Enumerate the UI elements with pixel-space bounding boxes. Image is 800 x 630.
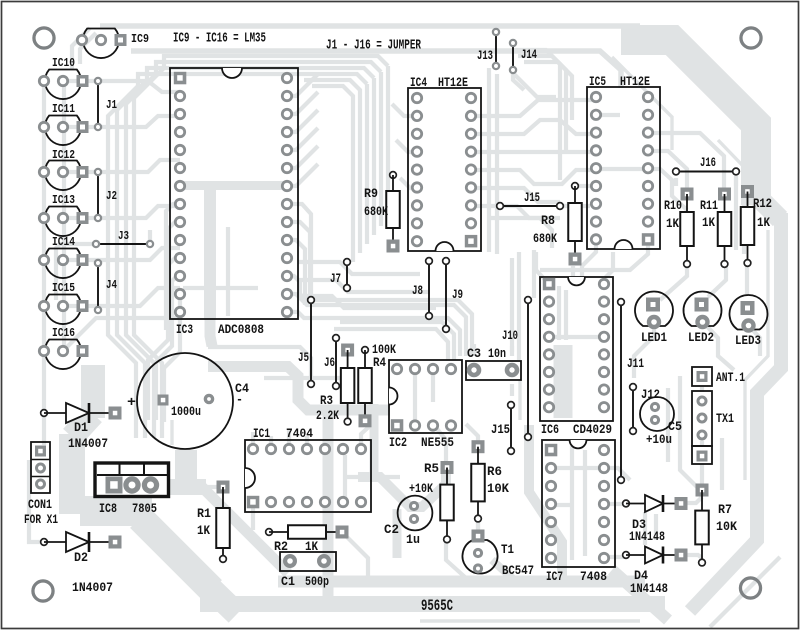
svg-text:1N4007: 1N4007	[68, 436, 108, 451]
svg-text:J3: J3	[118, 229, 129, 243]
label 7404 (IC1)	[286, 426, 313, 441]
wire	[700, 387, 704, 392]
svg-text:IC14: IC14	[52, 235, 75, 249]
wire	[251, 502, 255, 530]
wire	[63, 318, 180, 351]
copper pour band	[323, 408, 334, 596]
label 680K (R9)	[364, 204, 388, 219]
svg-text:IC11: IC11	[52, 102, 75, 116]
label J16	[700, 155, 716, 170]
jumper J2	[95, 169, 101, 221]
wire	[287, 312, 460, 356]
copper pour band	[621, 40, 756, 205]
svg-text:J15: J15	[491, 422, 510, 437]
svg-text:J1: J1	[106, 98, 117, 112]
label C5	[668, 419, 682, 434]
wire	[564, 290, 568, 340]
svg-text:1u: 1u	[406, 532, 420, 547]
label IC1	[253, 426, 270, 441]
label + (C4 polarity)	[127, 395, 136, 411]
capacitor C2 1u electrolytic	[398, 496, 433, 531]
svg-text:IC3: IC3	[176, 322, 193, 337]
label IC7	[546, 569, 563, 584]
label R4	[373, 355, 386, 370]
svg-text:IC12: IC12	[52, 148, 75, 162]
wire	[570, 446, 574, 560]
label R7	[718, 502, 732, 517]
copper pour band	[183, 181, 285, 190]
antenna terminal ANT.1	[692, 367, 712, 386]
wire	[287, 128, 318, 150]
resistor R8 680K	[568, 183, 582, 266]
label 1K (R12)	[757, 215, 770, 230]
capacitor C1 500p	[280, 552, 336, 571]
wire	[674, 178, 678, 186]
label 1000u (C4)	[171, 404, 201, 419]
transistor T1 BC547 (TO-92)	[463, 530, 498, 574]
label IC6	[541, 422, 559, 437]
label J5	[298, 350, 309, 365]
wire	[287, 164, 318, 186]
label CD4029	[573, 422, 612, 437]
jumper J15 bottom	[508, 402, 515, 455]
svg-text:IC16: IC16	[52, 326, 75, 340]
wire	[614, 239, 648, 270]
diode D3 1N4148	[623, 495, 688, 512]
temperature sensor IC12 LM35 (TO-92)	[39, 161, 88, 191]
label 1K (R11)	[702, 215, 715, 230]
svg-text:ANT.1: ANT.1	[716, 370, 745, 385]
svg-text:1K: 1K	[702, 215, 715, 230]
svg-text:BC547: BC547	[502, 563, 534, 578]
wire	[471, 100, 596, 116]
IC U-IC6 CD4029 body+pads	[540, 277, 613, 421]
wire	[100, 23, 640, 29]
resistor R3 2.2K	[341, 344, 355, 425]
capacitor C3 10n	[466, 361, 521, 380]
label C1	[281, 574, 295, 589]
wire	[343, 455, 347, 500]
wire	[126, 62, 381, 438]
wire	[80, 33, 96, 64]
wire	[648, 169, 687, 210]
label D4	[634, 568, 648, 583]
label J7	[330, 271, 341, 286]
label R11	[700, 198, 718, 213]
copper pour band	[202, 487, 288, 573]
svg-text:IC5: IC5	[589, 74, 606, 89]
svg-text:IC2: IC2	[389, 435, 407, 450]
svg-text:TX1: TX1	[716, 411, 734, 426]
wire	[718, 140, 744, 186]
wire	[471, 120, 596, 134]
label J12	[641, 387, 660, 402]
label IC15	[52, 281, 75, 295]
svg-text:IC1: IC1	[253, 426, 270, 441]
diode D1 1N4007	[41, 403, 122, 423]
label BC547 (T1)	[502, 563, 534, 578]
svg-text:R3: R3	[320, 393, 333, 408]
wire	[494, 24, 498, 32]
wire	[264, 378, 352, 404]
wire	[298, 280, 430, 292]
wire	[251, 432, 255, 449]
wire	[476, 522, 480, 531]
wire	[471, 188, 560, 202]
wire	[345, 475, 400, 479]
svg-text:680K: 680K	[364, 204, 388, 219]
wire	[63, 248, 180, 260]
wire	[560, 204, 590, 208]
label R2	[274, 539, 288, 554]
wire	[183, 286, 258, 290]
wire	[287, 222, 310, 300]
wire	[287, 92, 318, 114]
wire	[708, 264, 726, 297]
copper pour band	[175, 450, 197, 480]
mounting hole bottom-right	[740, 578, 760, 598]
label 1K (R1)	[197, 523, 210, 538]
svg-text:IC15: IC15	[52, 281, 75, 295]
svg-text:1K: 1K	[666, 216, 679, 231]
label J8	[412, 283, 423, 298]
wire	[700, 441, 704, 447]
wire	[536, 252, 549, 284]
capacitor C4 1000u electrolytic	[137, 353, 233, 449]
wire	[518, 56, 566, 150]
jumper J10	[525, 297, 532, 441]
label D3	[632, 517, 646, 532]
label NE555 (IC2)	[421, 435, 454, 450]
label J9	[452, 287, 463, 302]
wire	[108, 74, 367, 438]
jumper J15 top	[497, 203, 564, 210]
label ANT.1	[716, 370, 745, 385]
wire	[42, 81, 46, 413]
wire	[148, 258, 180, 420]
wire	[287, 146, 318, 168]
svg-text:R6: R6	[487, 464, 502, 479]
wire	[63, 288, 180, 306]
label LED1	[641, 330, 667, 345]
copper pour band	[393, 509, 402, 558]
wire	[334, 329, 448, 360]
wire	[686, 497, 702, 503]
wire	[583, 450, 587, 556]
svg-text:7408: 7408	[580, 569, 607, 584]
label D1	[74, 420, 88, 435]
label J6	[324, 355, 335, 370]
svg-text:10K: 10K	[716, 519, 737, 534]
mounting hole top-right	[741, 28, 761, 48]
wire	[287, 74, 318, 96]
copper pour band	[210, 314, 212, 346]
resistor R4 100K	[358, 347, 372, 428]
svg-text:R1: R1	[197, 506, 211, 521]
label IC3	[176, 322, 193, 337]
wire	[63, 81, 180, 92]
wire	[666, 388, 670, 462]
wire	[700, 464, 704, 484]
label D2	[74, 550, 88, 565]
label 100K (R4)	[372, 342, 396, 357]
svg-text:NE555: NE555	[421, 435, 454, 450]
board id 9565C	[421, 597, 453, 615]
svg-text:1N4007: 1N4007	[72, 580, 113, 595]
wire	[433, 424, 446, 462]
wire	[400, 178, 417, 188]
svg-text:7404: 7404	[286, 426, 313, 441]
label J15 top	[524, 190, 540, 205]
svg-text:1N4148: 1N4148	[629, 529, 665, 544]
title text J1 - J16 = JUMPER	[326, 39, 422, 54]
wire	[476, 519, 480, 530]
label LED2	[688, 330, 714, 345]
wire	[518, 380, 521, 420]
label 1N4007 (D1)	[68, 436, 108, 451]
svg-text:1K: 1K	[757, 215, 770, 230]
svg-text:C2: C2	[384, 522, 399, 537]
copper pour band	[756, 195, 780, 219]
label IC2	[389, 435, 407, 450]
resistor R1 1K	[216, 481, 230, 563]
svg-text:680K: 680K	[533, 231, 557, 246]
copper pour band	[278, 576, 645, 588]
jumper J6	[333, 335, 340, 390]
label J15 bottom	[491, 422, 510, 437]
title text IC9 - IC16 = LM35	[173, 32, 266, 47]
wire	[510, 346, 514, 356]
wire	[431, 372, 435, 402]
wire	[551, 503, 570, 507]
wire	[487, 68, 491, 252]
label R8	[541, 213, 555, 228]
copper pour band	[200, 596, 665, 612]
wire	[471, 170, 596, 184]
label R6	[487, 464, 502, 479]
temperature sensor IC11 LM35 (TO-92)	[39, 116, 88, 146]
wire	[540, 268, 612, 272]
svg-text:J16: J16	[700, 155, 716, 170]
wire	[654, 514, 658, 540]
svg-text:R5: R5	[424, 461, 439, 476]
label 7408 (IC7)	[580, 569, 607, 584]
label 10n (C3)	[488, 346, 506, 361]
wire	[466, 424, 478, 442]
label R10	[664, 198, 682, 213]
svg-text:+10u: +10u	[646, 432, 672, 447]
label IC4	[410, 75, 427, 90]
copper pour band	[208, 367, 390, 411]
wire	[612, 57, 672, 150]
label 1K (R2)	[305, 539, 318, 554]
svg-text:CD4029: CD4029	[573, 422, 612, 437]
label J10	[502, 328, 518, 343]
wire	[298, 262, 420, 274]
svg-text:R11: R11	[700, 198, 718, 213]
label C4	[235, 381, 249, 396]
jumper J5	[308, 297, 315, 388]
label 7805 (IC8)	[132, 501, 157, 516]
svg-text:C3: C3	[467, 346, 481, 361]
svg-text:R12: R12	[753, 196, 772, 211]
wire	[748, 325, 760, 356]
wire	[340, 322, 454, 360]
label IC11	[52, 102, 75, 116]
svg-text:J4: J4	[106, 278, 117, 292]
IC U-IC1 7404 body+pads	[245, 440, 371, 512]
jumper J1	[95, 78, 101, 130]
wire	[745, 230, 768, 480]
label J2	[106, 189, 117, 203]
wire	[148, 230, 152, 244]
copper pour band	[554, 345, 573, 418]
wire	[166, 204, 180, 330]
svg-text:HT12E: HT12E	[438, 75, 468, 90]
label 10K (R7)	[716, 519, 737, 534]
wire	[63, 116, 180, 127]
IC U-IC3 ADC0808 body+pads	[170, 68, 298, 319]
label 500p (C1)	[305, 574, 329, 589]
wire	[551, 466, 604, 470]
svg-text:+10K: +10K	[409, 481, 433, 496]
wire	[304, 80, 360, 253]
svg-text:J9: J9	[452, 287, 463, 302]
svg-text:R10: R10	[664, 198, 682, 213]
LED LED1	[635, 292, 673, 327]
jumper J3	[93, 241, 153, 247]
wire	[396, 140, 417, 152]
label 1u (C2)	[406, 532, 420, 547]
label HT12E (IC5)	[620, 74, 650, 89]
wire	[312, 86, 353, 262]
copper pour band	[72, 414, 93, 437]
wire	[131, 51, 621, 88]
svg-text:T1: T1	[501, 542, 514, 557]
svg-text:LED3: LED3	[735, 333, 761, 348]
jumper J12	[630, 384, 637, 435]
svg-text:7805: 7805	[132, 501, 157, 516]
wire	[56, 244, 96, 300]
resistor R11 1K	[718, 188, 732, 268]
copper pour band	[140, 518, 212, 590]
svg-text:C1: C1	[281, 574, 295, 589]
jumper J11	[618, 299, 625, 484]
wire	[513, 73, 556, 97]
wire	[361, 424, 372, 449]
copper pour band	[204, 190, 216, 318]
wire	[63, 206, 180, 218]
label ADC0808	[218, 322, 264, 337]
copper pour band	[80, 496, 152, 526]
svg-text:R9: R9	[364, 186, 378, 201]
wire	[524, 62, 572, 120]
wire	[680, 376, 698, 488]
wire	[420, 619, 640, 623]
IC U-IC5 HT12E body+pads	[587, 87, 660, 249]
label J11	[627, 356, 644, 371]
svg-text:J13: J13	[477, 48, 493, 63]
wire	[134, 56, 388, 438]
label J14	[521, 47, 537, 62]
IC U-IC7 7408 body+pads	[542, 440, 615, 567]
copper pour band	[204, 582, 237, 614]
svg-text:IC8: IC8	[99, 501, 117, 516]
svg-text:D1: D1	[74, 420, 88, 435]
wire	[582, 239, 596, 284]
diode D2 1N4007	[41, 532, 122, 552]
wire	[557, 286, 561, 340]
wire	[532, 250, 536, 298]
label R9	[364, 186, 378, 201]
wire	[604, 468, 630, 480]
resistor R10 1K	[680, 188, 694, 268]
label IC14	[52, 235, 75, 249]
IC U-IC4 HT12E body+pads	[408, 88, 481, 251]
wire	[72, 28, 90, 70]
wire	[170, 420, 173, 445]
wire	[287, 110, 318, 132]
wire	[604, 502, 625, 506]
svg-text:D2: D2	[74, 550, 88, 565]
copper pour band	[370, 404, 379, 478]
wire	[471, 150, 596, 154]
label J13	[477, 48, 493, 63]
wire	[63, 160, 180, 172]
wire	[287, 240, 305, 305]
svg-text:J15: J15	[524, 190, 540, 205]
svg-text:J10: J10	[502, 328, 518, 343]
svg-text:J14: J14	[521, 47, 537, 62]
wire	[710, 557, 780, 627]
svg-text:J2: J2	[106, 189, 117, 203]
wire	[29, 460, 40, 542]
temperature sensor IC13 LM35 (TO-92)	[39, 207, 88, 237]
svg-text:+: +	[127, 395, 136, 411]
label +10u (C5)	[646, 432, 672, 447]
label J4	[106, 278, 117, 292]
wire	[720, 438, 724, 490]
wire	[745, 263, 749, 294]
svg-text:IC4: IC4	[410, 75, 427, 90]
svg-text:R4: R4	[373, 355, 386, 370]
wire	[472, 344, 476, 356]
wire	[164, 294, 180, 422]
voltage regulator IC8 7805	[95, 463, 169, 497]
svg-text:ADC0808: ADC0808	[218, 322, 264, 337]
copper pour band	[690, 213, 781, 611]
copper pour band	[170, 479, 206, 495]
label 2.2K (R3)	[316, 408, 339, 423]
label HT12E (IC4)	[438, 75, 468, 90]
label IC10	[52, 56, 75, 70]
label R12	[753, 196, 772, 211]
copper pour band	[492, 560, 514, 580]
wire	[226, 227, 230, 316]
label +10K (C2 polarity / R5 value)	[409, 481, 433, 496]
svg-text:IC9 - IC16 = LM35: IC9 - IC16 = LM35	[173, 32, 266, 47]
wire	[156, 276, 180, 420]
mounting hole bottom-left	[33, 581, 53, 601]
label J3	[118, 229, 129, 243]
svg-text:J12: J12	[641, 387, 660, 402]
wire	[634, 321, 654, 378]
transmitter connector TX1	[692, 391, 712, 464]
label IC16	[52, 326, 75, 340]
wire	[571, 266, 575, 276]
label IC5	[589, 74, 606, 89]
svg-text:J11: J11	[627, 356, 644, 371]
